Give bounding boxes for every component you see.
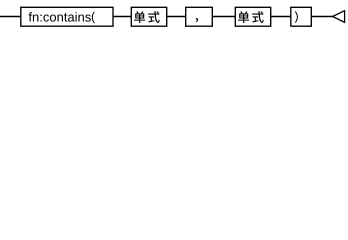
wire: exit line to end terminator bbox=[311, 16, 333, 18]
nonterminal box second 单式 bbox=[235, 7, 270, 26]
glyph 式 (first argument) bbox=[148, 11, 159, 23]
glyph fullwidth paren ） bbox=[295, 11, 298, 22]
glyph 单 (second argument) bbox=[238, 11, 249, 23]
terminal box ")" bbox=[291, 7, 312, 26]
terminal box "fn:contains(" bbox=[21, 7, 113, 26]
wire: between comma box and second 单式 box bbox=[212, 16, 235, 18]
wire: between second 单式 box and ) box bbox=[271, 16, 291, 18]
nonterminal box first 单式 bbox=[131, 7, 166, 26]
wire: entry line into fn:contains( box bbox=[0, 16, 21, 18]
end terminator: hollow left-pointing triangle bbox=[333, 11, 345, 23]
label "fn:contains(" (as outline paths) bbox=[29, 12, 95, 23]
glyph fullwidth comma ， bbox=[196, 18, 198, 22]
background bbox=[0, 0, 348, 33]
wire: between first 单式 box and comma box bbox=[167, 16, 186, 18]
glyph 单 (first argument) bbox=[134, 11, 145, 23]
railroad syntax diagram: fn:contains( 单式 , 单式 ) bbox=[0, 0, 348, 33]
terminal box comma bbox=[186, 7, 213, 26]
wire: between fn:contains( box and first 单式 box bbox=[113, 16, 132, 18]
glyph 式 (second argument) bbox=[252, 11, 263, 23]
